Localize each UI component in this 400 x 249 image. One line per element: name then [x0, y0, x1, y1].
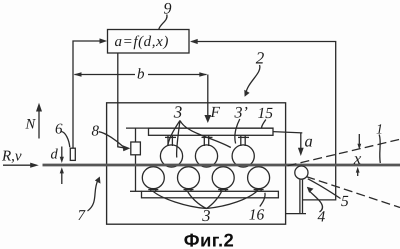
- svg-text:F: F: [210, 104, 221, 121]
- beam 16: [142, 191, 279, 198]
- svg-text:7: 7: [78, 208, 87, 224]
- leader 3 to bottom roller 4: [207, 190, 259, 208]
- leader 3': [235, 119, 240, 144]
- bottom roller stub 2: [185, 189, 187, 192]
- leader 8: [99, 132, 123, 147]
- svg-text:16: 16: [249, 207, 265, 224]
- beam 15: [149, 128, 274, 135]
- svg-text:8: 8: [92, 124, 100, 140]
- leader 16: [260, 193, 265, 207]
- svg-text:3: 3: [173, 103, 183, 122]
- stub of top roller 2: [203, 135, 205, 146]
- leader 3 to bottom roller 1: [153, 191, 207, 209]
- dimension d up arrow: [61, 172, 63, 185]
- leader 5: [308, 179, 341, 199]
- arrow into controller right: [190, 39, 198, 44]
- gauge 6 body: [70, 148, 75, 160]
- stub of top roller 1: [167, 135, 169, 146]
- leader 3 to left roller face: [177, 121, 180, 158]
- bottom roller 4: [248, 167, 270, 189]
- bottom roller 1: [142, 167, 164, 189]
- svg-text:d: d: [51, 147, 59, 163]
- leader 3 to bottom roller 2: [187, 191, 206, 209]
- top roller 3 (middle): [195, 145, 217, 167]
- machine frame box 2: [107, 103, 286, 224]
- leader 4: [309, 191, 323, 213]
- actuator 8 body: [131, 142, 141, 155]
- wire: gauge 6 to controller input d: [73, 41, 102, 148]
- leader 6: [61, 132, 70, 148]
- wire: roller-5 sensor to controller input x: [192, 42, 336, 200]
- leader 9: [159, 15, 167, 30]
- svg-text:b: b: [137, 67, 145, 83]
- dimension d down arrow: [61, 147, 63, 159]
- arrow into controller left: [100, 38, 108, 43]
- bottom roller 2: [178, 167, 200, 189]
- force arrow F: [207, 75, 209, 117]
- bottom roller stub 4: [255, 189, 257, 192]
- dimension a arrow: [300, 133, 302, 149]
- roller 5 column: [299, 180, 301, 214]
- bottom roller 3: [212, 167, 234, 189]
- arrow into actuator 8: [123, 145, 131, 151]
- roller 5 support shelf: [285, 213, 306, 215]
- lower dashed deflection line: [306, 177, 400, 208]
- svg-text:5: 5: [341, 193, 349, 210]
- stub of top roller 3': [240, 135, 242, 146]
- svg-text:N: N: [25, 117, 37, 133]
- leader 3 to middle/right roller: [180, 121, 231, 148]
- strip motion arrow: [3, 164, 32, 166]
- leader 2: [246, 65, 260, 94]
- arrowhead of leader 2: [244, 90, 249, 97]
- dimension x up arrow: [357, 171, 359, 177]
- actuator 8 mount upper: [135, 128, 137, 142]
- bottom roller stub 1: [150, 189, 152, 192]
- svg-text:Фиг.2: Фиг.2: [184, 229, 234, 249]
- svg-text:x: x: [353, 149, 362, 168]
- actuator 8 mount lower: [135, 155, 137, 192]
- upper dashed deflection line: [288, 139, 400, 166]
- top frame line: [126, 127, 273, 129]
- strip 7: [43, 164, 400, 167]
- wire: controller output to actuator 8: [118, 53, 124, 148]
- svg-text:a: a: [305, 132, 313, 151]
- leader 7: [88, 181, 98, 212]
- arrowhead of leader 4: [307, 187, 314, 193]
- dimension b left arrow: [74, 72, 82, 77]
- controller box U9: [108, 30, 190, 54]
- dimension x down arrow: [358, 134, 360, 146]
- bottom roller stub 3: [220, 189, 222, 192]
- bottom frame line: [130, 190, 142, 192]
- svg-text:3ʼ: 3ʼ: [234, 105, 248, 122]
- roller 5: [295, 166, 308, 179]
- dimension a reference line: [273, 132, 302, 133]
- direction arrow N: [38, 109, 40, 139]
- svg-text:6: 6: [55, 122, 63, 138]
- svg-text:a=f(d,x): a=f(d,x): [115, 34, 170, 50]
- svg-text:R,v: R,v: [1, 149, 22, 165]
- dimension b line: [75, 74, 136, 76]
- leader 15: [262, 120, 266, 128]
- leader 3 to bottom roller 3: [207, 190, 223, 208]
- top roller 3' (right): [232, 145, 254, 167]
- svg-text:2: 2: [256, 49, 265, 68]
- leader 1: [379, 135, 380, 164]
- top roller 3 (left): [160, 145, 182, 167]
- leader 3 to left roller: [168, 121, 180, 146]
- arrowhead of leader 7: [95, 177, 101, 184]
- dimension b right arrow: [199, 72, 207, 77]
